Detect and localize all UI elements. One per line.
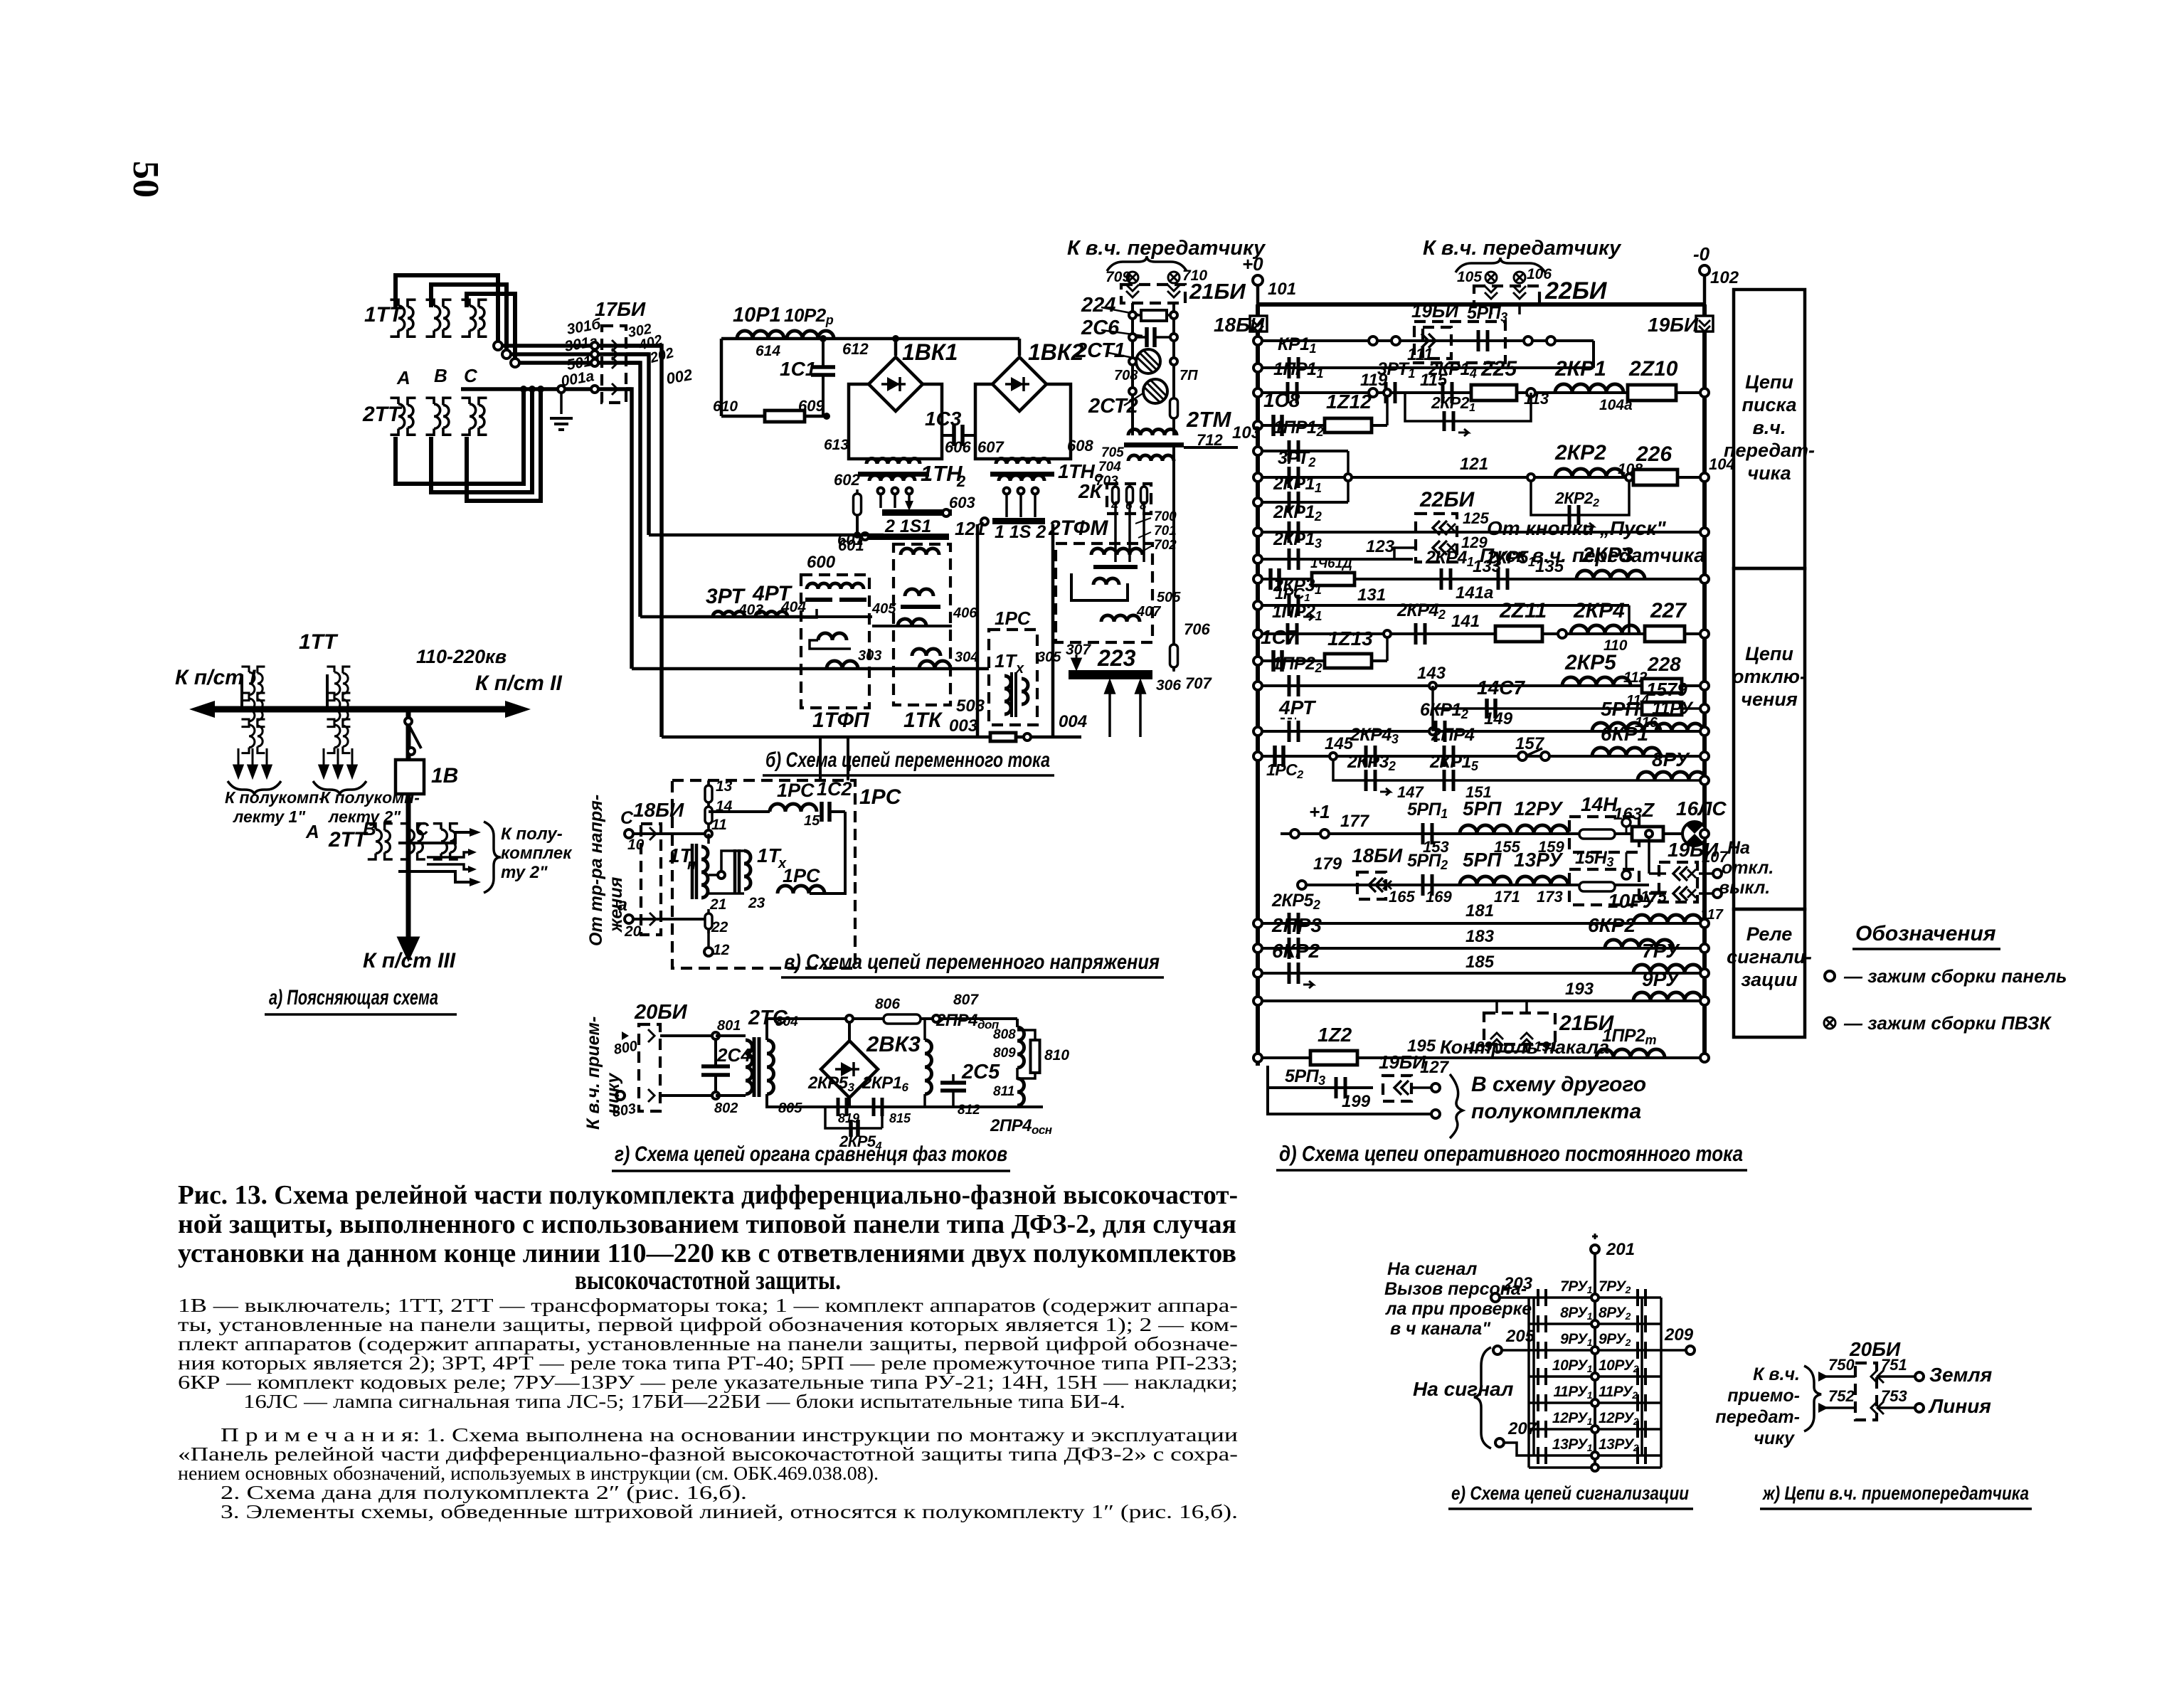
svg-text:1 1S 2: 1 1S 2 — [995, 522, 1046, 542]
svg-text:815: 815 — [889, 1111, 911, 1125]
breaker 1V — [396, 760, 424, 794]
svg-text:11РУ1: 11РУ1 — [1553, 1384, 1592, 1401]
svg-text:612: 612 — [842, 340, 869, 358]
svg-text:2КР11: 2КР11 — [1273, 474, 1322, 495]
svg-text:804: 804 — [775, 1014, 798, 1029]
svg-text:Обозначения: Обозначения — [1855, 922, 1996, 945]
svg-text:1ВК1: 1ВК1 — [902, 339, 958, 365]
svg-text:В: В — [434, 365, 447, 386]
rung 11РУ — [1529, 1401, 1661, 1404]
svg-text:505: 505 — [1157, 590, 1181, 605]
svg-text:6КР2: 6КР2 — [1272, 940, 1320, 962]
capacitor 1C3 — [942, 434, 954, 437]
svg-text:2КР14: 2КР14 — [1428, 359, 1477, 381]
rung 2KR1-1 — [1258, 501, 1348, 504]
terminals 800 803 — [622, 1032, 629, 1040]
svg-text:Контроль накала: Контроль накала — [1440, 1036, 1609, 1058]
bar 223 — [1069, 670, 1152, 679]
coil 1RS bottom — [778, 886, 825, 893]
capacitor 1C1 — [822, 339, 825, 367]
cap 2C4 — [714, 1036, 717, 1066]
svg-text:Линия: Линия — [1928, 1395, 1991, 1417]
svg-text:165: 165 — [1389, 888, 1415, 906]
brace v skhemu — [1450, 1074, 1463, 1138]
terminal +0 — [1253, 275, 1263, 285]
coil 3RT — [713, 612, 745, 617]
vertical wires 2ST stack — [1131, 303, 1134, 435]
svg-text:10РУ1: 10РУ1 — [1552, 1357, 1593, 1374]
svg-text:706: 706 — [1184, 620, 1210, 638]
svg-text:2ТМ: 2ТМ — [1186, 407, 1232, 432]
svg-text:2КР42: 2КР42 — [1396, 600, 1446, 622]
arrows to polukomplekt 2 — [319, 748, 328, 777]
svg-text:607: 607 — [977, 438, 1004, 456]
current transformers 1TT group 1 — [241, 667, 265, 701]
svg-text:1Z13: 1Z13 — [1327, 627, 1373, 649]
svg-text:2СТ1: 2СТ1 — [1075, 339, 1125, 362]
svg-text:2ВК3: 2ВК3 — [866, 1032, 921, 1056]
svg-text:+0: +0 — [1242, 253, 1263, 275]
cap 2C5 — [952, 1074, 955, 1083]
svg-text:751: 751 — [1881, 1356, 1907, 1374]
middle loop verticals — [976, 524, 980, 737]
svg-text:18БИ: 18БИ — [1352, 844, 1403, 866]
svg-text:«Панель релейной части диффере: «Панель релейной части дифференциально-ф… — [178, 1443, 1238, 1465]
current transformers cluster bottom row — [390, 398, 415, 435]
svg-text:К п/ст I: К п/ст I — [175, 666, 256, 689]
wire liniya — [1823, 1406, 1855, 1409]
svg-text:1РС: 1РС — [783, 865, 820, 886]
svg-text:чика: чика — [1747, 462, 1791, 484]
svg-text:е) Схема цепей сигнализации: е) Схема цепей сигнализации — [1451, 1483, 1689, 1504]
svg-text:К полу-: К полу- — [501, 824, 563, 844]
top rail g — [849, 1017, 1017, 1020]
svg-text:16ЛС — лампа сигнальная типа: 16ЛС — лампа сигнальная типа ЛС-5; 17БИ—… — [243, 1391, 1125, 1412]
test block 18BI (rail) — [1250, 316, 1267, 332]
rung 2KR1-3 22BI — [1258, 558, 1413, 561]
svg-text:г) Схема цепей органа сравн: г) Схема цепей органа сравненця фаз токо… — [615, 1142, 1007, 1166]
svg-text:в ч канала": в ч канала" — [1390, 1319, 1491, 1339]
svg-text:145: 145 — [1325, 734, 1354, 753]
top rail — [1258, 302, 1705, 307]
box tsepi otklyucheniya — [1734, 568, 1805, 909]
svg-text:Рис. 13. Схема релейной части: Рис. 13. Схема релейной части полукомпле… — [178, 1180, 1238, 1210]
bridge 1VK2 output box — [975, 384, 1071, 459]
svg-text:209: 209 — [1664, 1325, 1694, 1345]
svg-text:199: 199 — [1342, 1092, 1371, 1111]
lamp 16LS — [1682, 822, 1707, 846]
svg-text:18БИ: 18БИ — [633, 799, 684, 821]
svg-text:2КР2: 2КР2 — [1554, 441, 1606, 465]
svg-text:2ТТ: 2ТТ — [362, 403, 403, 426]
svg-text:6КР2: 6КР2 — [1588, 914, 1636, 936]
rung 1PR2-2 2KR5 228 — [1258, 684, 1705, 687]
svg-text:750: 750 — [1828, 1356, 1855, 1374]
svg-text:22: 22 — [711, 919, 728, 935]
legend zazhim sborki paneli — [1825, 971, 1835, 981]
svg-text:8РУ: 8РУ — [1652, 748, 1690, 770]
svg-text:141а: 141а — [1456, 583, 1493, 603]
cap column verticals e — [1532, 1298, 1535, 1455]
test block 21BI — [1121, 285, 1185, 303]
svg-text:-0: -0 — [1693, 243, 1710, 265]
svg-text:2: 2 — [956, 472, 966, 490]
svg-text:а: а — [617, 895, 627, 915]
svg-text:600: 600 — [807, 553, 836, 572]
wire 11 to 1Tx — [709, 851, 744, 875]
terminal 209 — [1686, 1346, 1695, 1354]
svg-text:1РС: 1РС — [995, 608, 1032, 629]
wire bundle to 17BI — [498, 344, 662, 348]
rung 14C7 1579 — [1433, 686, 1705, 709]
svg-text:2КР41: 2КР41 — [1425, 548, 1474, 569]
svg-text:193: 193 — [1565, 980, 1594, 999]
svg-text:ты, установленные на панели за: ты, установленные на панели защиты, перв… — [178, 1314, 1238, 1335]
svg-text:Земля: Земля — [1929, 1364, 1992, 1386]
svg-text:601: 601 — [837, 531, 864, 548]
svg-text:1Z2: 1Z2 — [1318, 1024, 1352, 1046]
svg-text:810: 810 — [1044, 1047, 1069, 1064]
coil in middle g — [925, 1040, 932, 1094]
svg-text:602: 602 — [834, 471, 860, 489]
link 14N to 15N — [1626, 852, 1628, 871]
svg-text:141: 141 — [1451, 612, 1480, 631]
svg-text:К в.ч. передатчику: К в.ч. передатчику — [1423, 237, 1622, 260]
rung pusk peredatchika — [1394, 548, 1416, 559]
svg-text:1В: 1В — [431, 764, 458, 788]
svg-text:50: 50 — [125, 161, 166, 198]
dashed box 2TFM — [1056, 543, 1152, 642]
svg-text:16ЛС: 16ЛС — [1676, 797, 1727, 820]
svg-text:1Z12: 1Z12 — [1326, 391, 1372, 413]
svg-text:От тр-ра напря-: От тр-ра напря- — [586, 795, 606, 946]
test block 20BI box — [639, 1024, 660, 1111]
svg-text:установки на данном конце лини: установки на данном конце линии 110—220 … — [178, 1239, 1236, 1268]
2TT secondary loops — [398, 832, 475, 843]
svg-text:передат-: передат- — [1724, 440, 1815, 461]
terminal 203 — [1491, 1293, 1500, 1302]
svg-text:2Z11: 2Z11 — [1499, 599, 1547, 622]
svg-text:610: 610 — [713, 398, 738, 415]
svg-text:1Ч61Д: 1Ч61Д — [1310, 556, 1352, 571]
rung 1PR2-1 2KR4 227 — [1258, 632, 1705, 635]
svg-text:приемо-: приемо- — [1727, 1386, 1800, 1406]
svg-text:откл.: откл. — [1722, 858, 1774, 878]
svg-text:1579: 1579 — [1646, 679, 1687, 700]
rung 1RS2 6KR1 — [1258, 755, 1705, 758]
svg-text:ту 2": ту 2" — [501, 863, 548, 882]
dashed box section v — [672, 780, 855, 968]
svg-text:19БИ: 19БИ — [1648, 314, 1699, 336]
svg-text:205: 205 — [1505, 1327, 1535, 1346]
svg-text:1ТТ: 1ТТ — [299, 630, 339, 654]
rung 2KR3-2 8RU — [1333, 756, 1705, 780]
svg-text:121: 121 — [1460, 455, 1488, 474]
svg-text:7П: 7П — [1180, 368, 1198, 383]
sub rung 2KR2-2 — [1531, 477, 1629, 515]
svg-text:А: А — [396, 367, 410, 388]
svg-text:185: 185 — [1465, 953, 1495, 972]
wires v inputs — [633, 832, 709, 835]
wire y1036 bottom row — [662, 736, 1081, 739]
rectifier bridge 1VK2 — [1018, 339, 1022, 356]
right branch 2PR4dop — [1016, 1019, 1019, 1027]
svg-text:ла при проверке: ла при проверке — [1385, 1299, 1532, 1319]
terminal 201 — [1592, 1234, 1598, 1239]
ground tap — [560, 389, 563, 414]
contacts 2KR53 2KR16 — [838, 1098, 847, 1116]
svg-text:С: С — [464, 365, 478, 386]
svg-text:1С3: 1С3 — [925, 408, 962, 430]
svg-text:10РУ2: 10РУ2 — [1599, 1357, 1639, 1374]
svg-text:— зажим сборки ПВЗК: — зажим сборки ПВЗК — [1843, 1012, 2052, 1034]
svg-text:12РУ2: 12РУ2 — [1599, 1410, 1639, 1427]
transformer 1TNo — [996, 459, 1049, 465]
svg-text:22БИ: 22БИ — [1419, 488, 1475, 511]
svg-text:1ПР22: 1ПР22 — [1272, 654, 1322, 675]
svg-text:307: 307 — [1066, 642, 1091, 658]
arrows up into 223 — [1106, 682, 1114, 737]
svg-text:в) Схема цепей переменного н: в) Схема цепей переменного напряжения — [784, 950, 1160, 974]
rung 5RP3 19BI v skhemu drugogo polukomplekta — [1268, 1066, 1389, 1114]
svg-text:Вызов персона-: Вызов персона- — [1384, 1279, 1527, 1299]
fuse 712 — [1170, 394, 1178, 423]
brace na signal — [1474, 1347, 1491, 1448]
svg-text:2КР4: 2КР4 — [1573, 599, 1625, 622]
coil 10P2r — [787, 331, 834, 339]
rung 2KR3-1 — [1258, 604, 1629, 607]
terminal 207 — [1495, 1438, 1504, 1447]
wire zemlya — [1823, 1375, 1855, 1378]
svg-text:ж) Цепи в.ч. приемопередатчи: ж) Цепи в.ч. приемопередатчика — [1761, 1483, 2029, 1504]
transformer 2TS — [716, 1034, 746, 1037]
svg-text:181: 181 — [1465, 901, 1494, 921]
svg-text:2Z10: 2Z10 — [1628, 357, 1678, 381]
left rail — [1256, 304, 1260, 1066]
svg-text:К в.ч.: К в.ч. — [1753, 1364, 1800, 1384]
svg-text:5РП: 5РП — [1463, 849, 1502, 871]
svg-text:613: 613 — [824, 437, 849, 453]
rung KR1-1 — [1258, 366, 1594, 369]
svg-text:801: 801 — [717, 1018, 741, 1034]
svg-text:1С7: 1С7 — [1261, 626, 1298, 648]
rung 9RU — [1258, 999, 1705, 1002]
wires 2TS to bridge — [767, 1019, 849, 1040]
svg-text:608: 608 — [1067, 437, 1093, 455]
rung 8РУ — [1529, 1322, 1661, 1325]
cluster bottom nested loops — [396, 389, 524, 484]
svg-text:614: 614 — [756, 343, 780, 359]
svg-text:2КР52: 2КР52 — [1271, 891, 1320, 912]
right rail — [1702, 304, 1707, 1058]
vertical right of 2TM to 223 — [1172, 447, 1175, 670]
svg-text:нением основных обозначений,: нением основных обозначений, используемы… — [178, 1463, 879, 1484]
svg-text:183: 183 — [1465, 927, 1495, 946]
svg-text:709: 709 — [1106, 269, 1130, 285]
capacitor 2C6 — [1147, 327, 1155, 347]
svg-text:К в.ч. прием-: К в.ч. прием- — [583, 1017, 603, 1130]
svg-text:104а: 104а — [1599, 397, 1633, 413]
transformer 2TM — [1128, 430, 1177, 436]
svg-text:1ТК: 1ТК — [903, 709, 943, 732]
vertical drop wires from cluster — [626, 346, 662, 737]
svg-text:808: 808 — [993, 1027, 1016, 1042]
svg-text:11РУ: 11РУ — [1652, 699, 1694, 718]
svg-text:выкл.: выкл. — [1719, 878, 1770, 898]
rung 12РУ — [1529, 1428, 1661, 1431]
svg-text:К п/ст III: К п/ст III — [363, 949, 456, 972]
svg-text:1С1: 1С1 — [780, 358, 816, 380]
brace zh — [1804, 1366, 1821, 1431]
svg-text:2КР12: 2КР12 — [1273, 502, 1322, 524]
transformer 1Tx — [735, 849, 739, 893]
svg-text:6КР — комплект кодовых реле;: 6КР — комплект кодовых реле; 7РУ—13РУ — … — [178, 1372, 1238, 1393]
svg-text:163: 163 — [1613, 805, 1643, 824]
svg-text:2С6: 2С6 — [1081, 317, 1120, 339]
svg-text:305: 305 — [1037, 649, 1061, 665]
svg-text:К в.ч. передатчику: К в.ч. передатчику — [1067, 237, 1266, 260]
svg-text:125: 125 — [1463, 509, 1489, 527]
rung 2PR3 6KR2 — [1258, 947, 1705, 950]
rung 2KR5-2 10RU — [1258, 922, 1705, 925]
svg-text:2КР22: 2КР22 — [1554, 489, 1599, 509]
rung 2KR1-2 — [1258, 531, 1705, 534]
switch bar 2 1S1 — [882, 509, 952, 516]
svg-text:2ТФМ: 2ТФМ — [1048, 516, 1108, 540]
coil 4RT — [756, 612, 788, 617]
svg-text:1РС: 1РС — [777, 780, 815, 801]
coil 1RS top — [770, 804, 817, 812]
svg-text:169: 169 — [1426, 888, 1452, 906]
svg-text:12РУ1: 12РУ1 — [1552, 1410, 1593, 1427]
svg-text:127: 127 — [1420, 1058, 1450, 1077]
dashed box 1TFP — [801, 575, 869, 708]
rung 9РУ — [1529, 1349, 1661, 1352]
test block 19BI (rail) — [1696, 316, 1713, 332]
switch blade — [405, 718, 412, 725]
svg-text:17БИ: 17БИ — [595, 298, 646, 320]
svg-text:21БИ: 21БИ — [1189, 279, 1246, 304]
svg-text:ния которых является 2); 3РТ,: ния которых является 2); 3РТ, 4РТ — реле… — [178, 1352, 1238, 1374]
brace right of 2TT — [484, 822, 501, 893]
wire y940 row — [632, 667, 989, 671]
svg-text:На сигнал: На сигнал — [1387, 1259, 1478, 1279]
svg-text:лекту 1": лекту 1" — [233, 807, 306, 826]
svg-text:10Р1: 10Р1 — [733, 304, 781, 327]
svg-text:13РУ1: 13РУ1 — [1552, 1436, 1593, 1453]
coil 2PR4osn — [1017, 1078, 1024, 1105]
left bus e — [1527, 1298, 1530, 1455]
svg-text:а) Поясняющая схема: а) Поясняющая схема — [269, 986, 438, 1009]
busbar 110-220kv — [211, 706, 509, 713]
coil 10P1 — [737, 331, 784, 339]
bottom rail g — [825, 1105, 1043, 1108]
bridge 2VK3 — [848, 1019, 851, 1040]
svg-text:д) Схема цепеи оперативного: д) Схема цепеи оперативного постоянного … — [1279, 1141, 1743, 1166]
terminals C 10 a 20 — [625, 829, 633, 838]
svg-text:705: 705 — [1101, 445, 1124, 460]
bridge 1VK1 output box — [849, 384, 942, 459]
svg-text:147: 147 — [1397, 783, 1424, 801]
svg-text:5РП: 5РП — [1601, 698, 1640, 720]
long bar 601 — [865, 534, 949, 540]
arrows to polukomplekt 1 — [234, 748, 243, 777]
svg-text:173: 173 — [1537, 888, 1563, 906]
wire y752 from cluster — [649, 534, 884, 537]
svg-text:19БИ: 19БИ — [1411, 300, 1459, 322]
svg-text:1С8: 1С8 — [1263, 389, 1300, 411]
rung 3RT2 121 2KR2 226 — [1258, 476, 1705, 479]
box 2K — [1107, 484, 1151, 514]
svg-text:304: 304 — [955, 649, 978, 665]
svg-text:105: 105 — [1457, 269, 1482, 285]
test block 17BI — [602, 326, 626, 403]
svg-text:708: 708 — [1114, 368, 1138, 383]
svg-text:На: На — [1727, 838, 1750, 858]
rung 16LS — [1281, 832, 1705, 835]
svg-text:2КР1: 2КР1 — [1554, 357, 1606, 381]
verticals b to v — [819, 737, 822, 780]
fuses 13 14 — [705, 781, 712, 807]
rectifier bridge 1VK1 — [894, 339, 898, 356]
svg-text:Цепи: Цепи — [1745, 371, 1793, 393]
svg-text:2КР32: 2КР32 — [1347, 752, 1396, 773]
cap 2KR54 branch — [825, 1107, 882, 1128]
svg-text:2КР43: 2КР43 — [1350, 725, 1399, 746]
switch bar 1 1S2 — [992, 518, 1045, 524]
svg-text:406: 406 — [953, 605, 977, 621]
svg-text:2. Схема дана для полукомпл: 2. Схема дана для полукомплекта 2″ (рис.… — [221, 1482, 747, 1503]
svg-text:19БИ: 19БИ — [1668, 839, 1719, 861]
svg-text:б) Схема цепей переменного: б) Схема цепей переменного тока — [765, 748, 1050, 772]
brace under group 2 — [313, 781, 366, 795]
terminals 709 710 — [1127, 272, 1138, 283]
svg-text:22БИ: 22БИ — [1544, 277, 1608, 304]
svg-text:5РП: 5РП — [1463, 797, 1502, 820]
svg-text:нику: нику — [603, 1073, 623, 1114]
svg-text:224: 224 — [1081, 294, 1115, 317]
rung 1C8 1Z12 — [1258, 424, 1387, 427]
dashed block 15N3 — [1569, 869, 1639, 905]
wires g inputs — [660, 1034, 716, 1037]
svg-text:К п/ст II: К п/ст II — [475, 672, 562, 695]
svg-text:103: 103 — [1232, 423, 1261, 442]
svg-text:207: 207 — [1507, 1419, 1538, 1438]
svg-text:1ПР12: 1ПР12 — [1273, 418, 1323, 439]
terminal -0 — [1700, 265, 1709, 275]
svg-text:1ПР11: 1ПР11 — [1273, 359, 1323, 381]
svg-text:н: н — [687, 857, 696, 873]
rung 1PR1-1 3RT1 2KR1-4 225 2KR1 2Z10 — [1258, 391, 1705, 394]
wire 13 top — [707, 780, 710, 785]
svg-text:131: 131 — [1357, 585, 1386, 605]
rung 13RU 15N3 — [1306, 884, 1649, 886]
test block 18BI (rung) — [1357, 872, 1386, 899]
svg-text:503: 503 — [956, 696, 985, 716]
branch 21BI kontrol nakala — [1495, 1001, 1498, 1013]
cap 1C2 — [822, 802, 829, 822]
rung 19BI 5RP3 — [1258, 339, 1594, 342]
svg-text:К полукомп-: К полукомп- — [225, 788, 324, 807]
fuse 602 — [854, 489, 862, 519]
rung 2KR3 — [1258, 578, 1705, 580]
wires 21 22 12 — [709, 892, 744, 895]
svg-text:2 1S1: 2 1S1 — [884, 516, 931, 536]
svg-text:13РУ: 13РУ — [1514, 849, 1564, 871]
svg-text:179: 179 — [1313, 854, 1342, 874]
svg-text:1В — выключатель; 1ТТ, 2ТТ —: 1В — выключатель; 1ТТ, 2ТТ — трансформат… — [178, 1295, 1238, 1316]
svg-text:высокочастотной защиты.: высокочастотной защиты. — [575, 1266, 841, 1295]
